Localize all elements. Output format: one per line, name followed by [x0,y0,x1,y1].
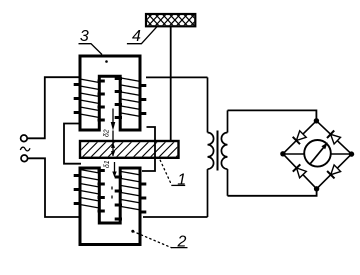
meter PA (galvanometer) [304,140,331,167]
coil on top-left leg [74,79,105,120]
bridge node left [280,151,285,156]
input terminal (bottom) [21,155,28,162]
wire: secondary top to bridge top node [228,110,317,120]
label 2 with dotted leader [131,230,187,251]
input terminal (top) [21,135,28,142]
magnetic core 2 (bottom, U) [80,168,140,245]
coil on bottom-right leg [115,172,147,220]
wire: top-right coil to transformer primary (top) [146,76,208,78]
rod link from armature to support [170,26,172,140]
wire: secondary bottom to bridge bottom node [228,189,317,196]
diode VD3 (bottom-left arm, pointing to left node) [293,164,307,177]
wire: bottom-right coil to transformer primary (bottom) [143,216,208,218]
wire: series link between left coils [64,124,81,164]
bridge rectifier edges [283,121,352,189]
bridge node right [349,151,354,156]
wire: series link between right coils (crosses bar) [142,127,155,171]
diode VD1 (top-left arm, pointing to left node) [293,131,307,144]
diode VD2 (top-right arm, pointing to top node) [327,131,341,145]
AC source symbol ~ [20,147,30,151]
coil on bottom-left leg [74,170,105,212]
air-gap dimension line with arrows [111,109,117,199]
svg-text:4: 4 [132,28,141,45]
center mark dot on core 3 [105,60,108,63]
coil on top-right leg [115,78,147,118]
support block 4 (crosshatched) [140,13,210,27]
svg-text:δ1: δ1 [104,160,111,168]
svg-text:3: 3 [80,28,89,45]
transformer T [208,77,228,217]
bridge node top [314,118,319,123]
wire: bottom input terminal to bottom-left coil [28,158,81,217]
label 4 with leader [127,27,157,45]
svg-text:1: 1 [177,172,186,189]
meter leads [283,153,352,155]
label 1 with dotted leader [160,160,186,188]
magnetic core 3 (top, inverted U) [80,56,140,130]
bridge node bottom [314,186,319,191]
wire: top input terminal to top-left coil [27,77,80,138]
diode VD4 (bottom-right arm, pointing to bottom node) [327,165,341,179]
svg-text:δ2: δ2 [104,129,111,137]
label 3 with leader [79,28,103,55]
armature bar 1 (hatched) [72,140,193,159]
